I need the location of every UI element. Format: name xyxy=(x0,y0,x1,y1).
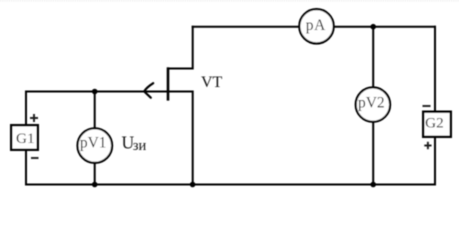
junction: gate rail / pV1 xyxy=(92,89,98,95)
voltage source G2 xyxy=(423,112,451,137)
transistor VT source lead xyxy=(167,92,193,186)
G1 minus polarity label xyxy=(31,157,39,159)
svg-text:VT: VT xyxy=(201,74,223,91)
svg-text:pA: pA xyxy=(306,17,326,34)
wire: pV2 bottom lead xyxy=(372,121,374,186)
ammeter pA xyxy=(299,9,333,43)
svg-text:pV1: pV1 xyxy=(80,135,107,152)
wire: gate rail (top wire of G1/pV1 loop to VT gate) xyxy=(25,91,169,93)
wire: top rail right segment (pA to G2 corner) xyxy=(334,26,437,28)
voltmeter pV2 xyxy=(356,87,390,121)
svg-text:зи: зи xyxy=(133,138,147,154)
wire: G2 top lead xyxy=(434,26,436,112)
wire: pV1 bottom lead xyxy=(94,162,96,186)
label VT xyxy=(201,74,223,91)
svg-text:G2: G2 xyxy=(425,115,444,132)
transistor VT channel bar xyxy=(167,67,170,100)
wire: bottom rail xyxy=(25,184,436,186)
svg-text:G1: G1 xyxy=(16,130,35,147)
junction: bottom rail / pV2 xyxy=(370,182,376,188)
wire: G1 top lead xyxy=(25,91,27,126)
wire: pV1 top lead xyxy=(94,91,96,131)
voltage source G1 xyxy=(11,125,38,150)
svg-text:pV2: pV2 xyxy=(358,95,385,112)
junction: bottom rail / pV1 xyxy=(92,182,98,188)
junction: top rail / pV2 xyxy=(370,24,376,30)
G2 minus polarity label xyxy=(423,105,431,107)
wire: pV2 top lead xyxy=(372,26,374,89)
junction: bottom rail / VT source xyxy=(190,182,196,188)
wire: G1 bottom lead xyxy=(25,150,27,186)
transistor VT drain lead xyxy=(167,26,193,69)
G2 plus polarity label xyxy=(424,142,431,149)
voltmeter pV1 xyxy=(78,128,113,163)
wire: top rail left segment (VT drain to pA) xyxy=(192,26,300,28)
label Uзи xyxy=(122,133,147,154)
wire: G2 bottom lead xyxy=(434,137,436,186)
G1 plus polarity label xyxy=(30,114,38,122)
transistor VT gate arrow xyxy=(144,83,153,98)
